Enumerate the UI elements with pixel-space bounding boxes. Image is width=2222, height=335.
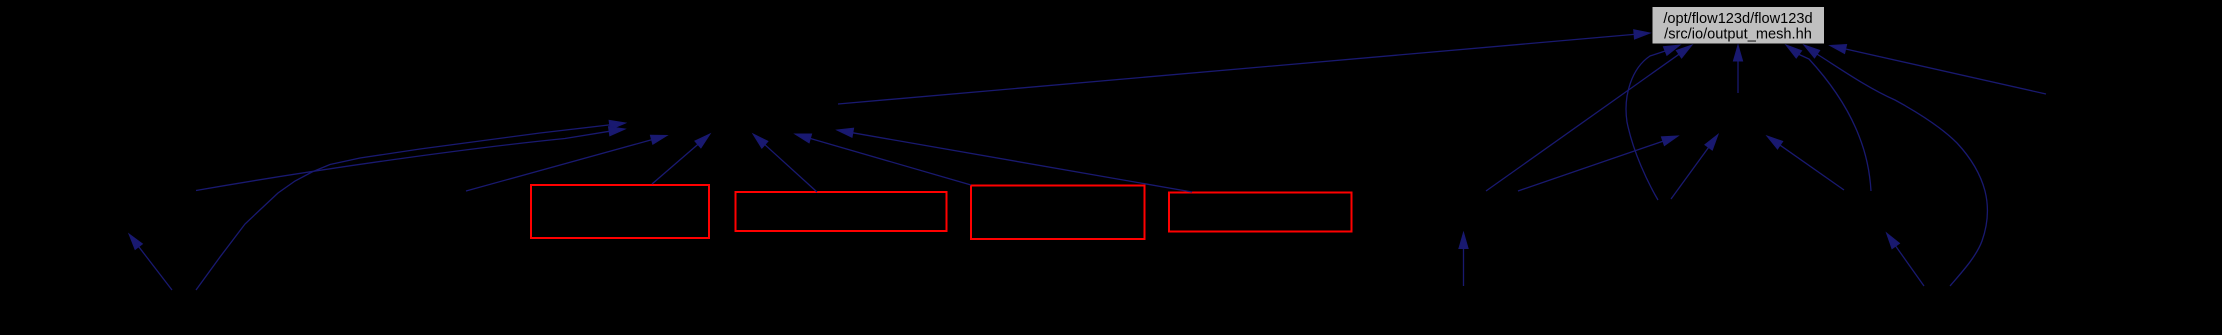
edge: right row node R4 curving up to main node bottom [1786,45,1871,191]
edge: right row node A to main node bottom [1486,45,1692,191]
edge: far-left row node to mid-left node (left edge lower tip) [196,127,625,191]
edge: bottom-left node curving right to mid-left node (left edge upper tip) [196,120,626,290]
edge: bottom-left node to left row node (arrow up-left) [129,234,172,290]
edge: red box 2 to mid-left node bottom [753,134,817,192]
node main: /opt/flow123d/flow123d/src/io/output_mesh.hh (grey filled) [1652,7,1825,45]
edge: red box 1 to mid-left node bottom [652,134,710,184]
edge: bottom node to right row node A (vertical arrow) [1459,233,1468,287]
edge: right row node A to R2 bottom-left [1518,136,1678,191]
node red box 4 [1169,193,1352,232]
node red box 2 [736,192,947,231]
edge: right 1-line node to R2 bottom [1671,135,1718,200]
svg-text:/opt/flow123d/flow123d: /opt/flow123d/flow123d [1663,11,1812,27]
edge: right row node R4 to R2 bottom-right [1767,136,1844,190]
node red box 1 [531,185,709,238]
edge: far right node to main node right corner [1830,45,2046,95]
edge: invisible row node to mid-left node bottom [466,135,667,191]
node red box 3 [971,186,1145,240]
edge: right 1-line node curving left up to main node bottom [1626,45,1680,200]
edge: right mid node R2 to main node bottom (vertical) [1733,45,1742,93]
edge: mid-left node to main node left edge (long line) [838,30,1650,104]
svg-text:/src/io/output_mesh.hh: /src/io/output_mesh.hh [1664,27,1812,43]
edge: red box 4 to mid-left node right edge [837,128,1192,192]
edge: bottom node to right row node R4 bottom [1887,233,1925,286]
edge: red box 3 to mid-left node bottom [795,134,971,185]
edge: bottom-right node big curve to main node bottom [1804,45,1987,286]
